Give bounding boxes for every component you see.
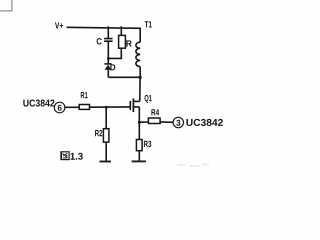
resistor R4: [148, 109, 160, 123]
wire R1 to gate: [90, 106, 131, 108]
junction node (gate / R2): [105, 106, 108, 109]
label UC3842 (right): [186, 119, 222, 126]
junction node (winding bottom / drain): [139, 76, 142, 79]
wire R2 to ground: [105, 142, 107, 161]
label UC3842 (left): [23, 100, 54, 107]
ground (R3): [132, 160, 146, 162]
capacitor C: [97, 38, 113, 44]
wire R4 to pin3: [160, 121, 173, 123]
wire drain: [139, 77, 141, 101]
junction node (snubber R bottom / C-D branch): [107, 57, 109, 59]
wire pin6 to R1: [65, 106, 79, 108]
diode D: [104, 64, 115, 71]
resistor R (snubber): [119, 35, 132, 48]
wire capacitor to diode: [107, 42, 109, 65]
IC pin circle 3: [173, 117, 183, 127]
ground (R2): [99, 161, 111, 163]
resistor R3: [136, 140, 151, 151]
label V+: [55, 22, 63, 28]
resistor R2: [95, 129, 109, 142]
wire source down: [138, 107, 140, 140]
junction node (source / R4): [138, 121, 141, 124]
wire R3 to ground: [138, 151, 140, 162]
wire R bottom: [108, 48, 121, 58]
resistor R1: [79, 92, 89, 109]
wire snubber resistor branch top: [120, 26, 122, 36]
wire V+ rail: [67, 27, 142, 28]
transformer T1: [136, 21, 152, 77]
IC pin circle 6: [54, 102, 65, 113]
wire snubber return rail: [108, 76, 140, 78]
wire R2 branch: [105, 107, 107, 129]
wire capacitor branch top: [107, 26, 109, 38]
wire source to R4: [139, 121, 148, 123]
wire diode anode to return rail: [107, 70, 109, 77]
figure label 图1.3: [61, 152, 83, 160]
watermark (faint): [177, 164, 209, 168]
frame corner (gray border remnant, top-left): [0, 0, 12, 11]
transistor Q1 (MOSFET): [130, 95, 151, 112]
